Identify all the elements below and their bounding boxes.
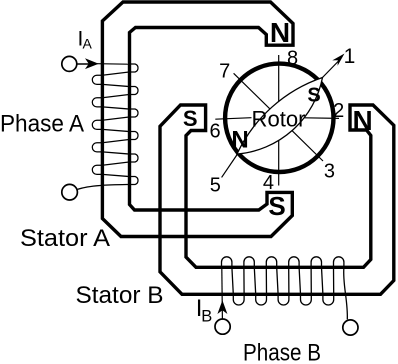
rotation arrow shaft to position 1 bbox=[322, 60, 340, 79]
terminal circle B left bbox=[215, 319, 230, 334]
svg-text:3: 3 bbox=[324, 161, 335, 183]
spoke vertical (8 to 4) bbox=[278, 55, 280, 186]
spoke horizontal right (2) bbox=[305, 117, 340, 120]
svg-text:Stator B: Stator B bbox=[76, 282, 164, 309]
rotation arrow head bbox=[332, 54, 344, 66]
spoke extension to 5 bbox=[222, 154, 238, 177]
svg-text:7: 7 bbox=[219, 60, 230, 82]
terminal circle A bottom bbox=[62, 184, 78, 200]
svg-text:1: 1 bbox=[344, 45, 356, 68]
svg-text:B: B bbox=[201, 308, 212, 326]
svg-text:S: S bbox=[268, 191, 285, 221]
wire from IA arrow into winding bbox=[97, 63, 129, 65]
svg-text:A: A bbox=[83, 36, 93, 52]
rotor circle bbox=[225, 64, 333, 172]
svg-text:Phase A: Phase A bbox=[0, 111, 84, 138]
svg-text:S: S bbox=[307, 85, 320, 107]
svg-text:N: N bbox=[270, 17, 290, 48]
phase A winding (6 turns around left leg of stator A) bbox=[92, 64, 138, 184]
svg-text:5: 5 bbox=[210, 174, 221, 196]
svg-text:Stator A: Stator A bbox=[20, 225, 110, 252]
stator A core (C-shape, top pole N and bottom pole S) bbox=[102, 2, 293, 237]
svg-text:S: S bbox=[183, 106, 198, 131]
current arrow IB head bbox=[217, 300, 227, 314]
spoke horizontal left (6) bbox=[215, 118, 251, 120]
svg-text:Rotor: Rotor bbox=[252, 107, 306, 132]
terminal circle A top bbox=[62, 56, 77, 71]
terminal circle B right bbox=[343, 320, 358, 335]
phase B winding (6 turns around bottom leg of stator B) bbox=[221, 257, 343, 305]
svg-text:2: 2 bbox=[333, 100, 344, 122]
svg-text:4: 4 bbox=[263, 172, 274, 194]
svg-text:Phase B: Phase B bbox=[243, 339, 321, 364]
rotor magnet needle (N-S lens) bbox=[237, 78, 323, 155]
svg-text:8: 8 bbox=[287, 47, 298, 69]
svg-text:6: 6 bbox=[210, 121, 221, 143]
svg-text:N: N bbox=[231, 127, 248, 154]
current arrow IA head bbox=[85, 58, 99, 69]
spoke diagonal (7 to 3) bbox=[234, 73, 323, 161]
svg-text:N: N bbox=[352, 105, 372, 136]
phase B winding exit wire to right terminal bbox=[344, 267, 348, 319]
current arrow IA shaft bbox=[76, 63, 90, 65]
phase A winding exit wire to bottom terminal bbox=[77, 185, 128, 190]
wire from IB terminal through core into winding bbox=[221, 267, 224, 319]
stator B core (C-shape, left pole S and right pole N) bbox=[160, 105, 394, 294]
